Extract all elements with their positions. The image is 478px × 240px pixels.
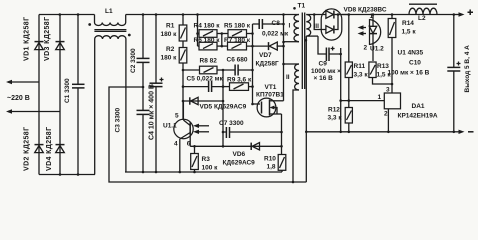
svg-text:I: I [289,23,291,30]
svg-text:VD7: VD7 [259,52,272,59]
svg-text:VD6: VD6 [233,151,246,158]
svg-text:КД258Г: КД258Г [256,61,279,68]
svg-text:R6 180 к: R6 180 к [194,37,221,44]
resistor R5 [217,33,228,35]
node output plus [454,14,460,16]
wire emitter-base row to VT1 source [190,145,281,147]
svg-text:3,3 к: 3,3 к [328,115,343,122]
resistor R6 [198,45,200,47]
wire drain column [283,15,285,101]
svg-text:II: II [286,74,290,81]
svg-text:C4 10 мк × 400 В: C4 10 мк × 400 В [149,84,156,140]
wire L1 lower-left terminal [94,39,96,175]
svg-text:4: 4 [174,141,178,148]
capacitor C9 electrolytic [318,36,341,54]
wire bridge left column [38,15,40,175]
resistor R3 [194,146,196,153]
wire C9 minus column [340,48,342,132]
svg-text:КР142ЕН19А: КР142ЕН19А [398,113,438,120]
svg-text:R12: R12 [328,107,340,114]
capacitor C7 [223,131,282,133]
svg-text:R4 180 к: R4 180 к [194,23,221,30]
wire outer loop from C2C3 midpoint [109,87,306,182]
inductor L2 [409,3,437,5]
svg-text:VD2 КД258Г: VD2 КД258Г [24,127,31,171]
svg-text:1: 1 [378,94,382,101]
capacitor C2 [142,15,144,59]
resistor R9 [223,86,230,88]
resistor R4 [198,33,200,35]
svg-text:0,022 мк: 0,022 мк [262,31,289,38]
svg-text:R9 3,6 к: R9 3,6 к [227,77,252,84]
svg-text:R7 180 к: R7 180 к [224,37,251,44]
wire winding II bottom to outer loop [293,90,299,182]
node light arrows into U1.1 [196,125,209,127]
svg-text:VD5 КД629АС9: VD5 КД629АС9 [200,104,247,111]
transistor VT1 MOSFET [257,98,276,117]
wire VT1 source column [281,114,283,155]
wire input arrow line 2 [8,111,60,113]
wire top rail primary [39,14,95,16]
resistor R12 [345,108,352,124]
svg-text:3,3 к: 3,3 к [354,72,369,79]
svg-text:C3 3300: C3 3300 [115,108,122,133]
node top rail junctions [59,13,62,16]
resistor R14 [391,15,393,19]
resistor R2 [182,41,184,48]
svg-text:C7 3300: C7 3300 [219,120,244,127]
wire secondary minus rail [306,131,454,133]
svg-text:100 мк × 16 В: 100 мк × 16 В [388,70,430,77]
capacitor C6 [223,69,253,71]
winding II [284,63,300,65]
svg-text:R2: R2 [166,46,175,53]
svg-text:R11: R11 [354,63,366,70]
opto LED U1.2 [370,19,381,45]
svg-text:~220 В: ~220 В [7,95,30,102]
resistor R13 [369,62,376,78]
diode VD5 [183,100,223,102]
svg-text:VD1 КД258Г: VD1 КД258Г [24,17,31,61]
resistor R1 [182,15,184,26]
wire R2 to U1.1 collector column [182,63,184,120]
wire winding III bottom tee [306,35,318,37]
svg-text:C8: C8 [272,20,281,27]
svg-text:C6 680: C6 680 [227,57,248,64]
winding III [306,15,310,37]
wire gate node column [252,24,254,103]
svg-text:R8 82: R8 82 [200,58,218,65]
svg-text:КП707В1: КП707В1 [256,92,284,99]
svg-text:× 16 В: × 16 В [314,75,334,82]
wire mid column x223 [222,70,224,146]
svg-text:1000 мк ×: 1000 мк × [311,68,341,75]
wire bridge right column [59,15,61,175]
resistor R11 [348,15,350,63]
diode VD4 [56,145,65,153]
svg-text:U1 4N35: U1 4N35 [398,50,424,57]
capacitor C4 electrolytic [155,15,157,84]
svg-text:VD3 КД258Г: VD3 КД258Г [44,17,51,61]
svg-text:VT1: VT1 [265,84,277,91]
svg-text:R10: R10 [264,156,276,163]
svg-text:R1: R1 [166,23,175,30]
svg-text:180 к: 180 к [161,55,178,62]
svg-text:U1.1: U1.1 [163,123,177,130]
svg-text:1,8: 1,8 [267,164,276,171]
svg-text:R14: R14 [402,20,414,27]
diode VD2 [35,145,44,153]
svg-text:VD4 КД258Г: VD4 КД258Г [46,127,53,171]
svg-text:R5 180 к: R5 180 к [224,23,251,30]
svg-text:U1.2: U1.2 [370,46,384,53]
svg-text:C10: C10 [409,60,421,67]
capacitor C10 electrolytic [453,15,455,68]
regulator DA1 [384,93,400,109]
svg-text:T1: T1 [298,3,306,10]
wire L1 lower-right terminal [125,39,127,172]
svg-text:КД629АС9: КД629АС9 [223,160,256,167]
resistor R10 [278,155,286,171]
svg-text:C5 0,022 мк: C5 0,022 мк [187,76,224,83]
winding I [294,15,299,42]
svg-text:100 к: 100 к [202,165,219,172]
svg-text:C2 3300: C2 3300 [130,48,137,73]
resistor R8 [183,69,200,71]
svg-text:C1 3300: C1 3300 [64,78,71,103]
wire secondary ground column [305,36,307,182]
capacitor C3 [142,115,144,172]
svg-text:Выход 5 В, 4 А: Выход 5 В, 4 А [464,45,471,93]
svg-text:5: 5 [175,113,179,120]
wire winding III top to VD8 [306,14,326,16]
svg-text:C9: C9 [319,61,328,68]
node output minus [454,131,460,133]
resistor R7 [217,45,228,47]
svg-text:180 к: 180 к [161,31,178,38]
wire R4R6 middle tie [221,34,223,47]
wire input arrow line 1 [8,81,39,83]
wire R4R6 left column [197,15,199,47]
svg-text:R3: R3 [202,156,211,163]
svg-text:2: 2 [364,45,368,52]
svg-text:L1: L1 [105,8,113,15]
node light arrows out of U1.2 [361,27,367,29]
diode VD1 [35,42,44,50]
diode VD3 [56,42,65,50]
capacitor C8 [253,23,284,25]
capacitor C5 [183,86,223,88]
wire bottom rail right (primary) [125,171,282,173]
svg-text:1,5 к: 1,5 к [402,29,417,36]
capacitor C1 [77,15,79,85]
wire top rail after L1 to T1 [126,14,299,16]
svg-text:L2: L2 [418,15,426,22]
svg-text:2: 2 [384,111,388,118]
diode VD7 [269,42,278,50]
wire bottom rail left [39,174,95,176]
svg-text:1: 1 [370,13,374,20]
svg-text:DA1: DA1 [412,103,425,110]
svg-text:VD8 КД238ВС: VD8 КД238ВС [344,7,387,14]
diode VD6 [251,143,259,150]
wire secondary top rail [342,14,454,16]
diode pair VD8 [321,9,342,40]
opto transistor U1.1 [174,119,193,138]
